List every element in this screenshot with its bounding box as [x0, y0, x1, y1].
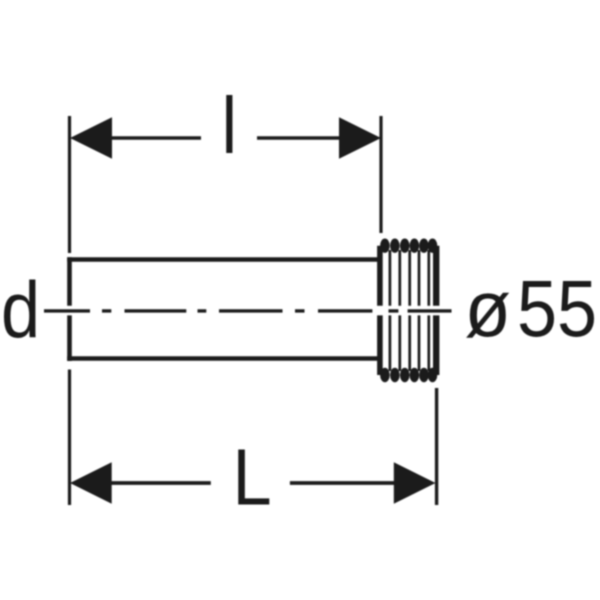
pipe left edge upper — [67, 257, 72, 306]
svg-text:55: 55 — [517, 265, 597, 354]
thread left edge lower — [377, 315, 383, 375]
thread root line 5 — [427, 250, 430, 371]
label l (top dimension) — [221, 81, 237, 170]
centerline dash-dot — [44, 309, 452, 312]
bottom dimension line right segment — [290, 481, 396, 485]
top dimension line left segment — [111, 136, 201, 140]
top dimension line right segment — [257, 136, 340, 140]
pipe top edge — [67, 257, 377, 262]
thread crest bumps bottom row — [380, 368, 437, 382]
label d (left diameter) — [1, 265, 40, 354]
thread root line 4 — [418, 250, 421, 371]
thread left edge upper — [377, 246, 383, 306]
top dimension extension line right — [379, 116, 382, 233]
thread root line 3 — [408, 250, 411, 371]
label 55 value — [517, 265, 597, 354]
label diameter sign — [465, 263, 511, 353]
bottom dimension left arrowhead — [70, 462, 112, 503]
svg-text:d: d — [1, 265, 40, 354]
bottom dimension extension line left — [68, 370, 71, 506]
top dimension right arrowhead — [339, 117, 381, 158]
pipe left edge lower — [67, 315, 72, 361]
thread right edge lower — [433, 315, 439, 375]
svg-text:L: L — [233, 433, 272, 522]
bottom dimension extension line right — [435, 388, 438, 505]
label L (bottom dimension) — [233, 433, 272, 522]
top dimension extension line left — [68, 116, 71, 253]
top dimension left arrowhead — [70, 117, 112, 158]
thread right edge upper — [433, 246, 439, 306]
thread root line 1 — [389, 250, 392, 371]
thread crest bumps top row — [380, 239, 437, 253]
thread root line 2 — [398, 250, 401, 371]
bottom dimension right arrowhead — [394, 462, 436, 503]
bottom dimension line left segment — [110, 481, 211, 485]
pipe bottom edge — [67, 356, 377, 361]
svg-text:l: l — [221, 81, 237, 170]
svg-text:ø: ø — [465, 263, 511, 353]
